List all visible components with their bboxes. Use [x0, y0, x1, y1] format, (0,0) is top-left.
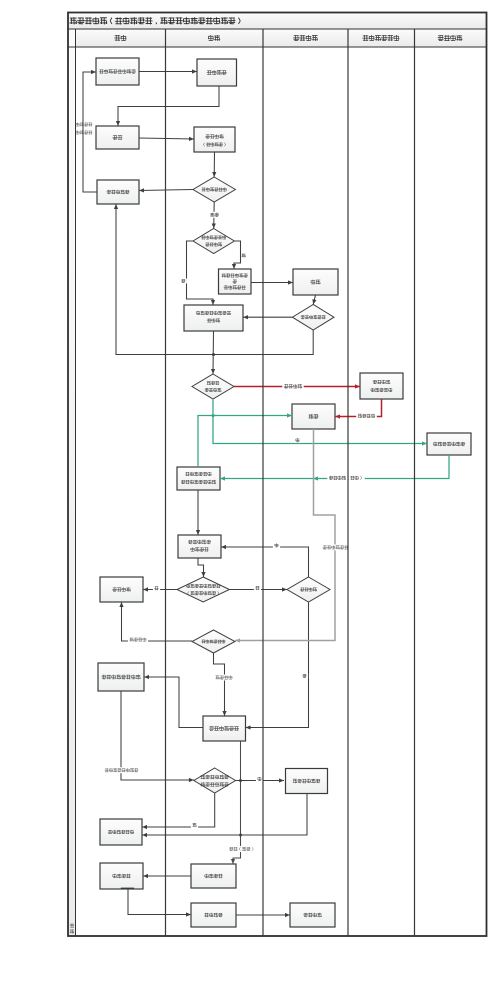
pool frame [68, 13, 487, 937]
label 是 (异步核保右) [242, 253, 246, 257]
wire 变更出单状态 -> 通知用户出单成功 [144, 677, 203, 728]
wire 初步核保 -> 核保是否通过 [213, 152, 215, 177]
lane header row [68, 29, 487, 47]
process 接收回执 [290, 903, 335, 927]
wire 核保是否通过 -通过-> 保险公司是否异步核保 [213, 202, 216, 229]
wire 通知用户出单成功 -> 服务器是否存在电子保单 [121, 691, 194, 780]
title bar [68, 13, 487, 30]
lane header 壹心支付 [438, 35, 444, 41]
wire 生成可支付的未支付订单 -> 是否为免费保单 [212, 331, 215, 374]
label 是 (是否超过左) [153, 586, 160, 591]
wire 免费保单 -否-> 壹心收银台支付 (green) [213, 399, 427, 444]
sidebar label 网销 [70, 923, 74, 927]
process 壹心收银台支付 [427, 433, 471, 455]
process 下载电子保单 [286, 769, 328, 794]
wire 变更支付状态 -> 超时未收到出单回调 [197, 490, 199, 535]
wire 下载电子保单 -> 提供电子保单 [142, 793, 307, 835]
wire 出单 -> 出单回调通知 -> 是否出单成功 (gray) [235, 429, 335, 641]
lane header 保险公司支付 [362, 35, 368, 41]
label 支付成功 (red) [356, 413, 377, 419]
wire 是否出单成功 -出单失败-> 出单失败 [122, 602, 193, 641]
wire 变更出单状态 -回执(寿险)-> 发放回执 [233, 741, 241, 864]
process 提交回执 [191, 903, 236, 927]
wire 生成未支付订单 -> 核保 [251, 282, 293, 284]
decision 是否出单成功 [192, 630, 235, 653]
label 通过 [209, 212, 221, 218]
lane header 壹心 [208, 35, 214, 41]
decision 服务器是否存在的电子保单 [194, 768, 236, 793]
wire 是否出单成功 -出单成功-> 变更出单状态 [214, 653, 225, 716]
process 填写回执 [100, 863, 143, 889]
process 生成可支付的未支付订单 [184, 305, 243, 331]
junction dots on 回执 wire [239, 779, 242, 782]
wire 填写回执 -> 提交回执 [128, 889, 191, 915]
wire 用户填写投保信息 -> 前置校验 [139, 71, 197, 73]
label 见费出单 (red) [282, 383, 303, 389]
wire 超时未收到出单回调 -> 是否超过生成订单 [198, 558, 204, 577]
title 投保流程图（支持非寿险，非车险及部分网销寿险） [70, 17, 78, 24]
process 核保 [293, 269, 338, 295]
label 否 (异步核保左) [180, 279, 187, 284]
lane boundary 3 [347, 29, 349, 936]
wire 提交回执 -> 接收回执 [236, 914, 290, 916]
sidebar line [75, 29, 77, 936]
process 未通过核保 [97, 180, 139, 204]
wire 是否超过 -否-> 是否出单 [229, 589, 287, 591]
wire 未通过核保 -重新填写投保信息-> 用户填写投保信息 [83, 72, 97, 192]
wire 服务器 -有-> 下载电子保单 [236, 780, 285, 782]
process 提供电子保单 [100, 819, 142, 845]
lane header 保险公司 [293, 35, 299, 41]
wire 异步核保 -是-> 生成未支付订单及核保订单 [234, 241, 241, 269]
label 用户查看电子保单 [103, 767, 140, 773]
decision 核保是否通过 [193, 177, 235, 202]
label 否 (免费保单下) [294, 438, 301, 443]
wire 免费保单 -见费出单-> 保险公司收银台支付 (red) [234, 386, 360, 388]
lane header 用户 [114, 35, 120, 41]
wire 变更支付状态 -> 出单 (green) [198, 416, 292, 468]
header separator [68, 46, 487, 48]
wire 前置校验 -> 提交 [118, 86, 219, 126]
lane boundary 2 [262, 29, 264, 936]
wire 服务器 -无-> 提供电子保单 [142, 793, 215, 827]
wire 核保是否通过 -否-> 未通过核保 [139, 190, 193, 191]
label 是 (是否出单下) [301, 674, 308, 679]
process 变更支付状态通知保险公司出单 [177, 467, 220, 490]
process 出单失败 [100, 577, 143, 602]
wire 保险公司收银台支付 -支付成功-> 出单 (red) [335, 399, 382, 417]
process 通知用户出单成功 [98, 663, 144, 691]
selection mark on 填写回执 bottom edge [121, 888, 134, 890]
label 回执（寿险） [228, 846, 257, 852]
label 出单回调通知 (gray wire) [321, 544, 350, 550]
wire 提交 -> 初步核保 [139, 138, 194, 139]
wire 是否出单 -是-> 变更出单状态 [246, 602, 309, 728]
decision 是否超过生成订单(废弃支付时间) [177, 577, 229, 602]
green mid arrowhead at gray crossing [313, 476, 318, 480]
decision 是否出单 [287, 577, 330, 602]
process 保险公司收银台支付 [360, 373, 403, 399]
process 出单 [292, 404, 335, 429]
process 用户填写投保信息 [96, 58, 139, 85]
process 发放回执 [191, 864, 236, 888]
process 生成未支付订单及核保订单 [219, 269, 252, 294]
sidebar strip [68, 29, 76, 936]
lane boundary 4 [414, 29, 416, 936]
title separator [68, 28, 487, 30]
label 无 [191, 823, 198, 828]
label 出单成功 [214, 675, 234, 681]
junction dot [212, 353, 215, 356]
label 重新填写投保信息 (vertical wire) [76, 122, 80, 126]
decision 核保是否通过(保险公司) [292, 304, 334, 330]
process 超时未收到出单回调 [178, 535, 221, 558]
wire 壹心收银台支付 -支付成功(同步)-> 变更支付状态 (green) [220, 455, 449, 479]
label 有 [256, 777, 263, 782]
process 初步核保(后端校验) [194, 127, 235, 152]
green junction dot [212, 414, 215, 417]
label 出单失败 [128, 637, 148, 643]
label 否 (是否出单上) [273, 543, 280, 548]
label 否 (是否超过右) [254, 586, 261, 591]
wire 是否超过 -是-> 出单失败 [143, 589, 177, 591]
wire 发放回执 -> 填写回执 [143, 875, 191, 877]
wire 核保是否通过2 -否-> 未通过核保 (long feedback) [116, 204, 313, 355]
wire 异步核保 -否-> 生成可支付的未支付订单 [187, 241, 214, 305]
process 变更出单状态 [203, 716, 246, 741]
wire 核保 -> 核保是否通过2 [313, 295, 315, 305]
decision 保险公司是否异步核保 [193, 229, 234, 254]
process 提交 [96, 126, 139, 149]
label 支付成功（同步） [327, 475, 364, 481]
lane boundary 1 [165, 29, 167, 936]
wire 是否出单 -否-> 超时未收到出单回调 [221, 547, 309, 577]
process 前置校验 [197, 59, 237, 86]
decision 是否为免费保单 [192, 374, 234, 399]
wire 核保是否通过2 -> 生成可支付的未支付订单 [243, 316, 292, 318]
